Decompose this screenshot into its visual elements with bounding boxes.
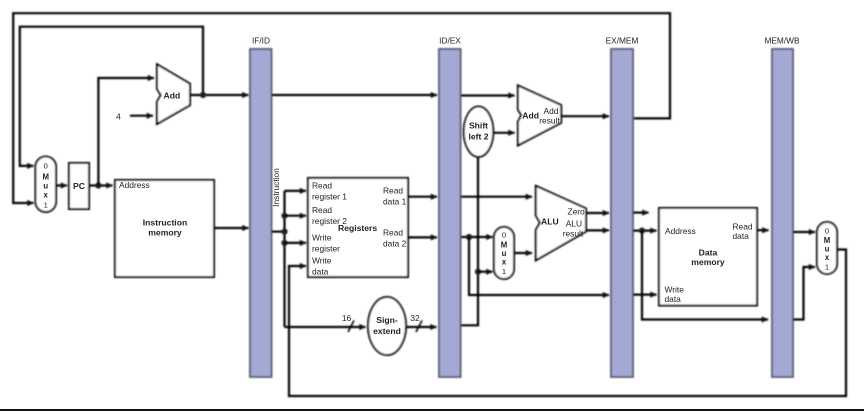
wire: Read data 1 from ID/EX to ALU bbox=[461, 196, 532, 198]
wire: bus to Read register 1 bbox=[285, 190, 307, 192]
svg-text:Data: Data bbox=[699, 247, 718, 257]
wire: Zero flag out of EX/MEM bbox=[633, 212, 649, 214]
svg-text:ID/EX: ID/EX bbox=[439, 36, 461, 46]
pipeline register IF/ID body bbox=[250, 49, 272, 377]
label: shift left 2 texts bbox=[468, 121, 488, 142]
wire: instruction memory output to IF/ID bbox=[214, 227, 249, 229]
wire: instruction bus vertical bbox=[283, 191, 285, 327]
svg-text:16: 16 bbox=[342, 313, 352, 323]
svg-text:x: x bbox=[825, 253, 830, 262]
junction dot: immediate to ALU mux bbox=[475, 269, 481, 275]
svg-text:memory: memory bbox=[691, 257, 725, 267]
svg-text:Read: Read bbox=[312, 205, 332, 215]
wire: bus to Sign-extend bbox=[285, 326, 366, 328]
wire: Shift left 2 output to branch adder bbox=[493, 132, 514, 134]
wire: store data from EX/MEM to data memory Write data bbox=[633, 294, 657, 296]
svg-text:Read: Read bbox=[383, 185, 403, 195]
svg-text:data: data bbox=[665, 294, 682, 304]
label: mux M3 texts bbox=[824, 227, 831, 272]
label: mux M1 texts bbox=[42, 162, 49, 210]
pipeline register ID/EX body bbox=[439, 49, 461, 377]
svg-text:x: x bbox=[44, 191, 49, 200]
svg-text:0: 0 bbox=[502, 231, 506, 240]
svg-text:u: u bbox=[43, 182, 48, 191]
wire: Read data 2 to ID/EX bbox=[408, 236, 437, 238]
label: data memory texts bbox=[665, 221, 753, 304]
svg-text:Instruction: Instruction bbox=[143, 218, 187, 228]
svg-text:1: 1 bbox=[825, 263, 829, 272]
wire: ALU result to EX/MEM bbox=[586, 229, 609, 231]
wire: branch adder result to EX/MEM bbox=[561, 115, 609, 117]
svg-text:ALU: ALU bbox=[566, 219, 582, 229]
svg-text:1: 1 bbox=[44, 201, 48, 210]
svg-text:result: result bbox=[563, 228, 584, 238]
instruction memory block body bbox=[115, 180, 214, 277]
wire: bus to Read register 2 bbox=[285, 215, 307, 217]
wire: sign-extended immediate from ID/EX up to Shift left 2 bbox=[461, 157, 478, 326]
bus width slash 32 bbox=[416, 321, 422, 333]
wire: ALU result from MEM/WB to WB mux input 1 bbox=[793, 267, 815, 320]
data memory block body bbox=[659, 208, 757, 306]
junction dot: Add output bbox=[200, 92, 206, 98]
junction dot: bus to read register 2 bbox=[281, 213, 287, 219]
adder Add (PC+4) body bbox=[157, 64, 190, 124]
wire: constant 4 to Add bottom input bbox=[130, 115, 153, 117]
wire: write-back loop from WB mux to Registers Write data bbox=[289, 250, 846, 397]
junction dot: PC output bbox=[95, 182, 101, 188]
wire: PC output to instruction memory Address bbox=[89, 184, 113, 186]
svg-text:MEM/WB: MEM/WB bbox=[764, 36, 799, 46]
pipeline register EX/MEM body bbox=[611, 49, 633, 377]
junction dot: read data 2 bbox=[466, 234, 472, 240]
pipeline register MEM/WB body bbox=[772, 49, 793, 377]
svg-text:Add: Add bbox=[164, 91, 181, 101]
wire: ALU mux output to ALU bottom input bbox=[514, 252, 532, 254]
wire: data memory Read data to MEM/WB bbox=[757, 229, 769, 231]
label: mux M2 texts bbox=[501, 231, 508, 277]
label: branch adder texts bbox=[522, 106, 560, 126]
svg-text:PC: PC bbox=[73, 181, 85, 191]
svg-text:Zero: Zero bbox=[567, 207, 585, 217]
svg-text:1: 1 bbox=[502, 267, 506, 276]
label: instruction memory texts bbox=[119, 180, 187, 238]
svg-text:Address: Address bbox=[665, 226, 696, 236]
shifter Shift left 2 body bbox=[464, 107, 494, 157]
wire: PC+4 Add output feedback to PC mux input 0 bbox=[20, 27, 203, 166]
svg-text:EX/MEM: EX/MEM bbox=[606, 36, 639, 46]
wire: PC+4 from IF/ID to ID/EX bbox=[272, 94, 438, 96]
wire: bus to Write register bbox=[285, 242, 307, 244]
wire: PC value up to Add top input bbox=[98, 78, 154, 186]
wire: ALU result bypass down to MEM/WB bbox=[642, 231, 768, 320]
svg-text:Read: Read bbox=[312, 180, 332, 190]
svg-text:extend: extend bbox=[373, 326, 401, 336]
wire: read data from MEM/WB to WB mux input 0 bbox=[793, 231, 815, 233]
svg-text:Add: Add bbox=[522, 110, 539, 120]
wire: branch target feedback from EX/MEM around top to PC mux input 1 bbox=[13, 13, 670, 203]
svg-text:memory: memory bbox=[148, 228, 182, 238]
wire: Read data 2 from ID/EX to ALU mux input 0 bbox=[461, 236, 493, 238]
bus width slash 16 bbox=[348, 321, 354, 333]
svg-text:left 2: left 2 bbox=[468, 131, 488, 141]
wire: PC+4 from ID/EX to branch adder bbox=[461, 94, 515, 96]
wire: mux M1 output to PC bbox=[56, 184, 67, 186]
svg-text:result: result bbox=[539, 116, 560, 126]
svg-text:0: 0 bbox=[825, 227, 829, 236]
register file Registers body bbox=[308, 178, 408, 277]
label: ALU texts bbox=[541, 207, 585, 239]
svg-text:4: 4 bbox=[116, 112, 121, 122]
svg-text:32: 32 bbox=[410, 313, 420, 323]
label: register file texts bbox=[312, 180, 407, 276]
svg-text:Write: Write bbox=[312, 232, 332, 242]
svg-text:M: M bbox=[42, 173, 49, 182]
junction dot: bus to write register bbox=[281, 240, 287, 246]
svg-text:Add: Add bbox=[544, 106, 559, 116]
bottom separator rule bbox=[0, 409, 864, 411]
svg-text:Sign-: Sign- bbox=[376, 315, 398, 325]
svg-text:Address: Address bbox=[119, 180, 150, 190]
svg-text:Instruction: Instruction bbox=[271, 168, 281, 207]
svg-text:register: register bbox=[312, 243, 340, 253]
wire: Sign-extend output to ID/EX bbox=[406, 326, 437, 328]
wire: immediate to ALU mux input 1 bbox=[478, 271, 493, 273]
svg-text:ALU: ALU bbox=[541, 216, 559, 226]
svg-text:x: x bbox=[502, 258, 507, 267]
svg-text:data: data bbox=[733, 231, 750, 241]
svg-text:register 1: register 1 bbox=[312, 191, 347, 201]
sign extender body bbox=[368, 297, 406, 355]
mux M1 (PC source mux) body bbox=[36, 157, 57, 213]
wire: ALU result from EX/MEM to data memory Address bbox=[633, 230, 657, 232]
junction dot: instruction entering bus bbox=[281, 229, 287, 235]
mux M3 (write-back mux) body bbox=[817, 222, 837, 274]
svg-text:Registers: Registers bbox=[338, 223, 377, 233]
svg-text:Read: Read bbox=[733, 221, 753, 231]
svg-text:data: data bbox=[312, 267, 329, 277]
adder Add (branch target) body bbox=[518, 85, 561, 145]
svg-text:0: 0 bbox=[44, 162, 48, 171]
svg-text:Write: Write bbox=[665, 284, 685, 294]
wire: Read data 1 to ID/EX bbox=[408, 196, 437, 198]
mux M2 (ALU source mux) body bbox=[494, 227, 514, 279]
svg-text:IF/ID: IF/ID bbox=[252, 36, 270, 46]
wire: instruction out of IF/ID to decode bus bbox=[272, 231, 285, 233]
svg-text:Read: Read bbox=[383, 228, 403, 238]
ALU body bbox=[536, 186, 586, 261]
svg-text:data 2: data 2 bbox=[383, 239, 407, 249]
junction dot: ALU result bbox=[639, 228, 645, 234]
svg-text:Shift: Shift bbox=[469, 121, 488, 131]
wire: read data 2 forwarded to EX/MEM store data bbox=[469, 237, 609, 295]
label: sign extender texts bbox=[373, 315, 401, 336]
wire: ALU Zero to EX/MEM bbox=[586, 212, 609, 214]
wire: Add output to IF/ID bbox=[190, 94, 249, 96]
register PC body bbox=[69, 163, 89, 209]
svg-text:data 1: data 1 bbox=[383, 196, 407, 206]
svg-text:Write: Write bbox=[312, 256, 332, 266]
